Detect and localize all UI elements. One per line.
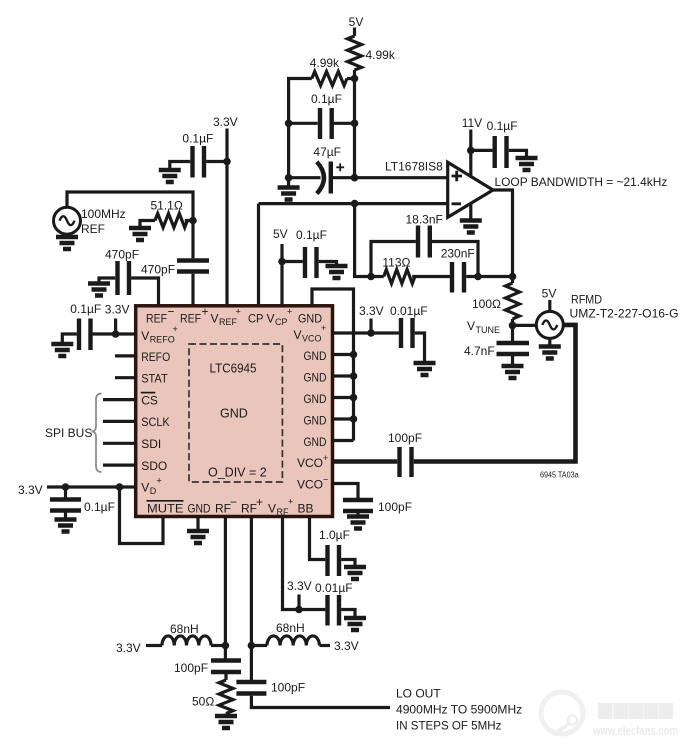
wire VCO output loop [414,325,576,462]
svg-text:LOOP BANDWIDTH = ~21.4kHz: LOOP BANDWIDTH = ~21.4kHz [495,175,668,189]
svg-text:0.01µF: 0.01µF [315,581,353,595]
capacitor 230nF [412,275,512,278]
svg-text:1.0µF: 1.0µF [319,528,350,542]
svg-text:V: V [467,319,475,333]
ground GND bottom pin [196,517,199,531]
inductor 68nH right [248,642,256,650]
svg-text:GND: GND [304,392,327,406]
capacitor 0.1uF bias [289,122,355,125]
ground 470pF [88,284,110,296]
capacitor 100pF VCO+ [400,447,412,477]
svg-text:0.1µF: 0.1µF [487,119,518,133]
svg-text:+: + [157,476,162,486]
svg-text:5V: 5V [542,287,557,301]
VCO source circle [536,311,563,338]
wire GND top pin [312,289,354,441]
svg-text:113Ω: 113Ω [382,256,410,270]
svg-text:4.7nF: 4.7nF [464,344,495,358]
svg-text:0.01µF: 0.01µF [390,304,428,318]
resistor 51.1ohm [140,214,193,228]
svg-text:100Ω: 100Ω [472,297,501,311]
wire 5V to R1 [353,28,356,37]
svg-text:68nH: 68nH [276,621,305,635]
node junction 5V/4.99k [351,75,359,83]
svg-text:−: − [323,475,328,485]
svg-text:V: V [294,328,302,342]
node opamp output [509,273,517,281]
capacitor 0.1uF VD [64,487,67,498]
ground opamp [469,203,472,220]
ground 11V cap [516,158,538,170]
junction dot right 0.1uF [351,120,359,128]
capacitor 4.7nF [497,343,530,354]
svg-text:CP: CP [248,312,264,326]
node REF junction [189,217,197,225]
svg-text:TUNE: TUNE [476,325,501,335]
svg-text:6945 TA03a: 6945 TA03a [540,471,579,480]
svg-text:LTC6945: LTC6945 [210,362,257,376]
svg-text:4.99k: 4.99k [366,48,396,62]
svg-text:LO OUT: LO OUT [396,687,441,701]
svg-text:SPI BUS: SPI BUS [45,426,92,440]
capacitor 470pF series [177,261,209,272]
wire RF+ vertical [250,517,253,680]
junction dot left 0.1uF [285,120,293,128]
svg-text:4900MHz TO 5900MHz: 4900MHz TO 5900MHz [396,703,522,717]
svg-text:51.1Ω: 51.1Ω [151,199,183,213]
svg-text:3.3V: 3.3V [287,579,312,593]
svg-text:V: V [268,502,276,516]
wire CP to inverting input [259,202,448,205]
svg-text:REF: REF [180,312,201,326]
ground REF source [65,234,68,236]
svg-text:100pF: 100pF [388,431,422,445]
ground VCO [548,338,551,346]
resistor 113ohm [384,270,415,284]
svg-text:4.99k: 4.99k [310,56,340,70]
resistor 100ohm [506,277,520,342]
svg-text:V: V [267,312,275,326]
svg-text:100MHz: 100MHz [81,207,126,221]
wire 3.3V to VD+ [47,485,136,488]
ground 0.1uF VREF [159,170,181,182]
svg-text:3.3V: 3.3V [359,304,384,318]
ground 0.01uF VVCO [414,363,436,375]
capacitor 18.3nF [371,242,478,277]
svg-text:+: + [202,305,209,319]
opamp output wire [493,190,513,277]
svg-text:100pF: 100pF [378,500,412,514]
svg-text:UMZ-T2-227-O16-G: UMZ-T2-227-O16-G [570,307,679,321]
svg-text:GND: GND [304,370,327,384]
svg-text:+: + [321,323,326,333]
svg-text:230nF: 230nF [441,247,475,261]
wire REF to chip [67,192,193,258]
svg-text:+: + [256,495,263,509]
node filter right [474,273,482,281]
svg-text:RF: RF [215,502,231,516]
wire GND stubs right [333,355,354,441]
wire bias node vertical [353,70,356,178]
node filter left [367,273,375,281]
svg-text:REF: REF [81,222,105,236]
resistor R 4.99k horizontal [312,72,355,86]
ground 0.1uF VD [55,520,77,532]
svg-text:GND: GND [304,413,327,427]
ground bias left [278,188,300,200]
svg-text:3.3V: 3.3V [213,115,238,129]
svg-text:GND: GND [304,435,327,449]
wire CS stub [103,398,136,401]
capacitor 100pF RF- [211,661,241,673]
svg-text:3.3V: 3.3V [105,303,130,317]
wire BB [310,517,326,560]
svg-text:D: D [150,486,157,496]
ground 51.1ohm [129,228,151,240]
svg-text:47µF: 47µF [313,145,341,159]
node VTUNE [509,322,517,330]
chip inner dashed boundary [189,344,282,482]
wire SCLK stub [103,420,136,423]
svg-text:STAT: STAT [141,372,168,386]
ground 0.1uF VCP [326,266,348,278]
svg-text:3.3V: 3.3V [18,483,43,497]
svg-text:−: − [168,305,175,319]
resistor 50ohm [219,674,233,716]
ground 4.7nF [502,366,524,378]
svg-text:MUTE: MUTE [147,502,184,516]
svg-text:V: V [211,312,219,326]
wire VREFO+ [93,332,136,335]
svg-text:+: + [236,307,241,317]
capacitor 0.1uF 11V [471,150,527,157]
svg-text:VCO: VCO [302,334,322,344]
wire 11V supply [469,130,472,177]
svg-text:LT1678IS8: LT1678IS8 [385,160,443,174]
svg-text:VCO: VCO [297,456,323,470]
svg-text:100pF: 100pF [271,681,305,695]
wire left bias branch [289,79,312,188]
svg-text:GND: GND [220,407,248,421]
svg-text:+: + [323,453,328,463]
svg-text:0.1µF: 0.1µF [182,132,213,146]
svg-text:18.3nF: 18.3nF [406,213,443,227]
svg-text:5V: 5V [349,15,364,29]
ground 1.0uF BB [344,567,366,579]
wire MUTE tie to VD [120,487,164,544]
svg-text:VCO: VCO [297,478,323,492]
svg-text:CS: CS [141,393,158,407]
resistor R 4.99k vertical [348,36,362,70]
capacitor 100pF RF+ out [236,682,266,694]
svg-text:BB: BB [298,502,314,516]
wire STAT stub [115,376,136,379]
wire CP pin vertical [257,204,260,306]
wire SDI stub [103,442,136,445]
junction dot opamp plus input [351,174,359,182]
svg-text:CP: CP [275,317,288,327]
svg-text:100pF: 100pF [174,661,208,675]
svg-text:V: V [141,481,149,495]
chip U2 LTC6945 body [136,306,333,517]
svg-text:SDI: SDI [141,437,161,451]
svg-text:V: V [141,329,149,343]
svg-text:REF: REF [146,312,167,326]
svg-text:O_DIV = 2: O_DIV = 2 [208,466,267,480]
svg-text:REF: REF [219,317,238,327]
svg-text:0.1µF: 0.1µF [70,302,101,316]
svg-text:REFO: REFO [150,335,175,345]
svg-text:GND: GND [298,312,322,326]
svg-text:+: + [287,307,292,317]
wire SDO stub [103,464,136,467]
svg-text:0.1µF: 0.1µF [296,228,327,242]
svg-text:3.3V: 3.3V [334,639,359,653]
svg-text:470pF: 470pF [141,263,175,277]
svg-text:5V: 5V [273,227,288,241]
svg-text:0.1µF: 0.1µF [311,92,342,106]
svg-text:GND: GND [188,502,211,516]
wire VTUNE to VCO [513,324,537,327]
wire VCO- [333,484,359,499]
wire REFO stub [115,354,136,357]
svg-text:50Ω: 50Ω [192,695,214,709]
source 100MHz REF [54,207,81,234]
wire RF- vertical [224,517,227,659]
svg-text:3.3V: 3.3V [116,641,141,655]
svg-text:470pF: 470pF [105,248,139,262]
svg-text:+: + [288,497,293,507]
svg-text:0.1µF: 0.1µF [84,500,115,514]
svg-text:RF: RF [277,507,289,517]
svg-text:+: + [173,324,178,334]
svg-text:SDO: SDO [141,459,167,473]
svg-text:www.elecfans.com: www.elecfans.com [592,723,678,738]
ground 100pF VCO- [347,517,369,529]
wire LO OUT [251,696,390,708]
svg-text:IN STEPS OF 5MHz: IN STEPS OF 5MHz [396,719,501,733]
svg-text:GND: GND [304,349,327,363]
svg-text:−: − [230,495,237,509]
op-amp U1 triangle [448,162,493,217]
wire VVCO+ [333,331,399,334]
ground 50ohm [215,716,237,728]
wire filter node vertical [355,204,384,277]
svg-text:SCLK: SCLK [141,415,170,429]
wire VRF+ [283,517,326,610]
svg-text:68nH: 68nH [170,622,199,636]
ground 0.1uF VREFO [51,344,73,356]
svg-text:11V: 11V [462,116,482,130]
svg-text:RF: RF [241,502,257,516]
svg-text:REFO: REFO [141,350,170,364]
junction dot 47uF left [285,174,293,182]
capacitor 100pF VCO- [343,500,373,511]
ground 0.01uF VRF [344,618,366,630]
svg-text:RFMD: RFMD [571,293,602,307]
SPI BUS brace [92,394,102,473]
watermark logo [541,692,678,738]
